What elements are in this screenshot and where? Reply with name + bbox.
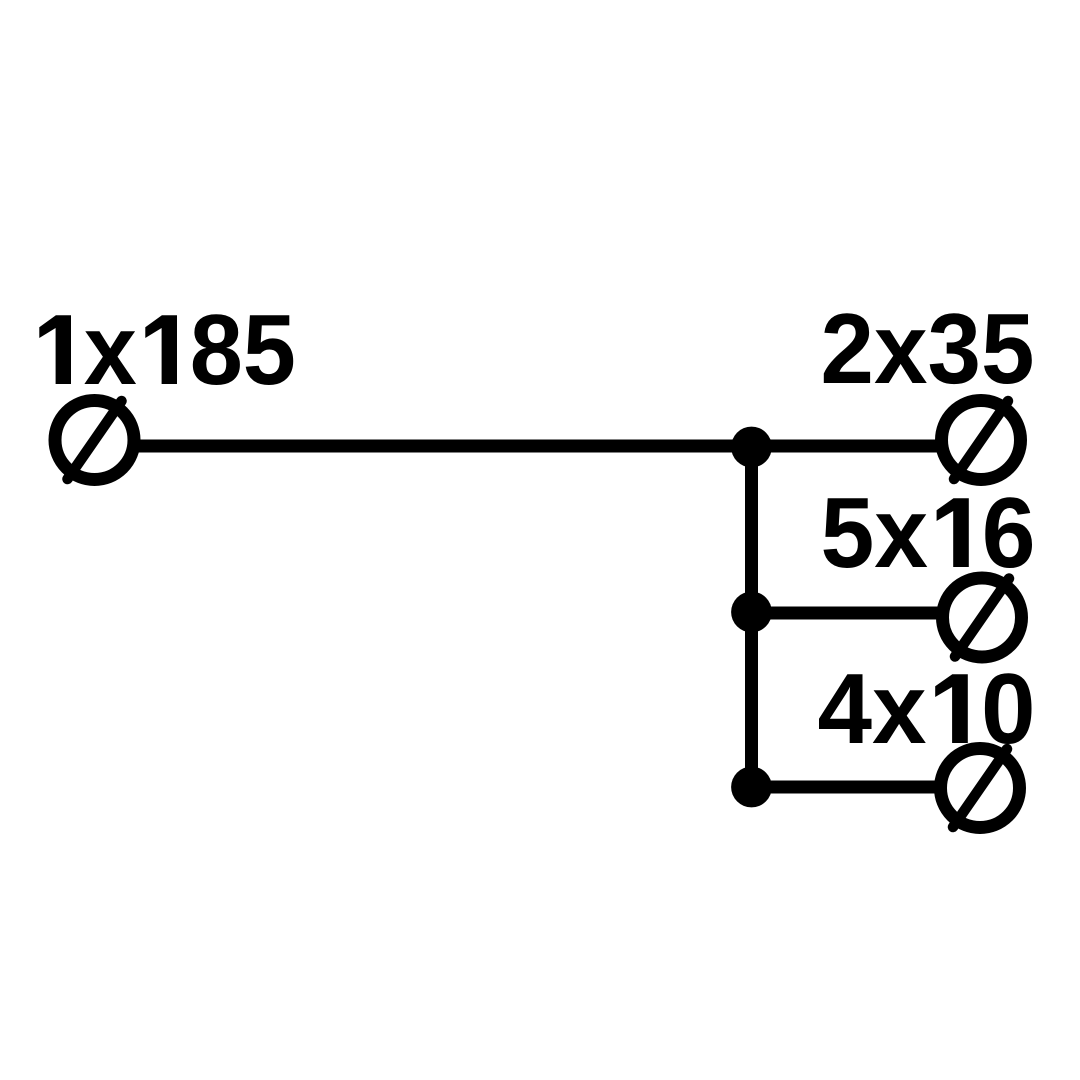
wire vertical bus from node A to node C	[745, 446, 758, 787]
label 4x10	[819, 673, 1032, 744]
label 2x35	[824, 313, 1032, 384]
label 5x16	[824, 497, 1033, 568]
terminal clamp symbol, branch cable 2x35	[942, 401, 1021, 480]
wire branch from node B to terminal 5x16	[752, 607, 943, 620]
wire branch from node A to terminal 2x35	[752, 440, 942, 453]
label 1x185	[39, 314, 293, 385]
terminal clamp symbol, feeder cable 1x185	[55, 401, 134, 480]
wire branch from node C to terminal 4x10	[752, 781, 941, 794]
node B junction dot	[731, 592, 772, 633]
node C junction dot	[731, 767, 772, 808]
node A junction dot	[731, 427, 772, 468]
terminal clamp symbol, branch cable 4x10	[941, 749, 1020, 828]
wire main horizontal from feeder terminal to node A	[132, 440, 752, 453]
terminal clamp symbol, branch cable 5x16	[943, 578, 1022, 657]
